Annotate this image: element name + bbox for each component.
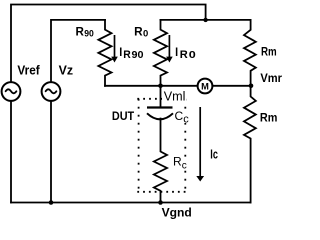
svg-text:Vgnd: Vgnd	[162, 205, 192, 219]
svg-text:c: c	[182, 161, 187, 172]
svg-text:Vmr: Vmr	[260, 71, 282, 85]
svg-text:DUT: DUT	[112, 109, 135, 123]
svg-text:Rm: Rm	[261, 45, 277, 59]
svg-text:c: c	[183, 113, 189, 125]
svg-text:I: I	[119, 45, 122, 59]
svg-text:R: R	[180, 49, 188, 61]
svg-text:C: C	[175, 109, 184, 123]
svg-text:Vml: Vml	[164, 89, 186, 104]
svg-text:Rm: Rm	[260, 110, 278, 124]
svg-text:Vz: Vz	[59, 62, 73, 77]
svg-text:R: R	[123, 49, 131, 61]
svg-text:M: M	[201, 82, 209, 92]
svg-text:90: 90	[84, 29, 94, 40]
svg-text:I: I	[175, 45, 178, 59]
svg-text:R: R	[173, 154, 182, 168]
svg-text:0: 0	[143, 28, 148, 39]
svg-text:90: 90	[132, 50, 144, 61]
svg-text:0: 0	[189, 50, 197, 61]
svg-text:Vref: Vref	[17, 62, 40, 77]
svg-text:Ic: Ic	[210, 146, 218, 161]
